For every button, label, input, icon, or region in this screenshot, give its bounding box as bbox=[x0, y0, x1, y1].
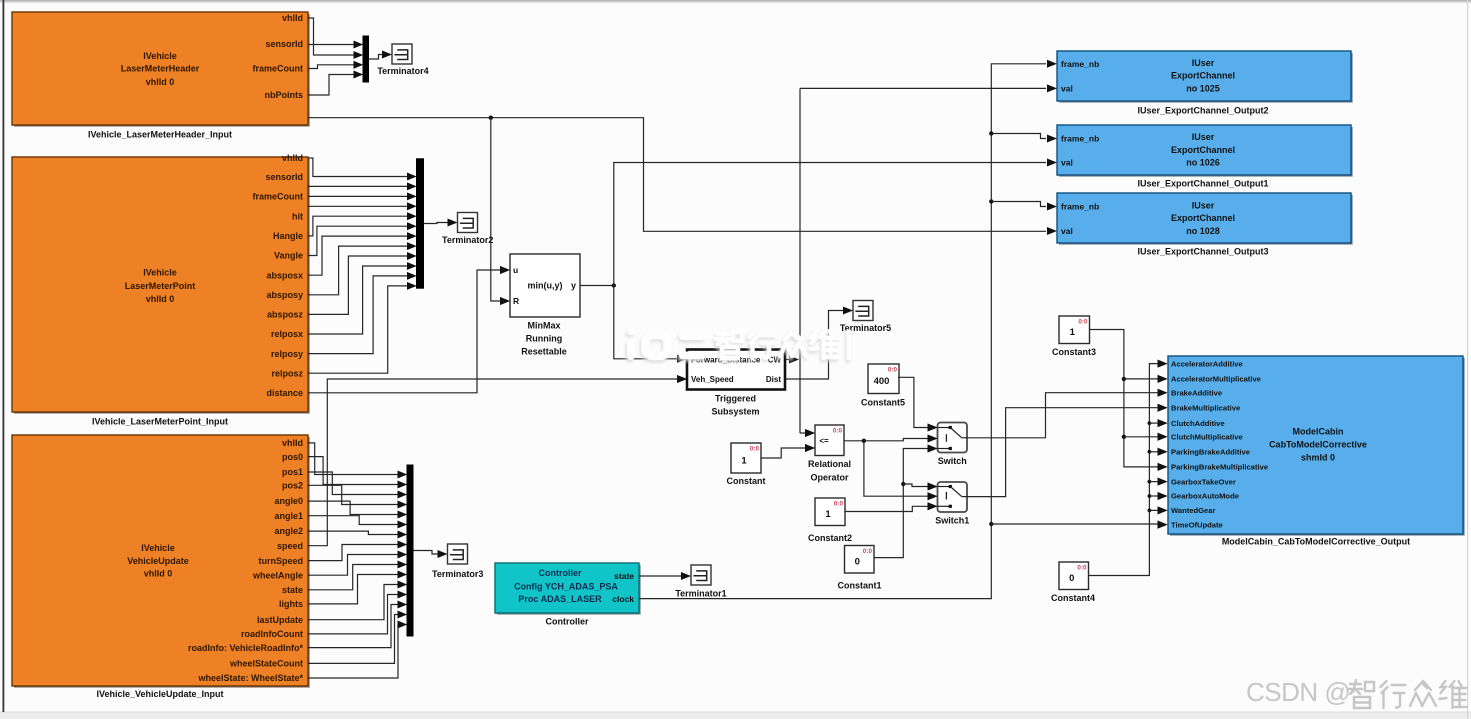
svg-text:0: 0 bbox=[1069, 573, 1074, 584]
svg-text:wheelState: WheelState*: wheelState: WheelState* bbox=[197, 673, 303, 683]
wire Switch1 out to BrakeMultiplicative bbox=[967, 404, 1168, 497]
svg-text:speed: speed bbox=[277, 541, 303, 551]
wire Mux2 to Terminator2 bbox=[424, 219, 458, 227]
constant block Constant1 (0) bbox=[837, 546, 881, 591]
svg-text:no 1026: no 1026 bbox=[1186, 158, 1220, 168]
canvas edge line bbox=[3, 0, 5, 712]
svg-text:sensorId: sensorId bbox=[265, 172, 303, 182]
right window edge line bbox=[1467, 0, 1468, 719]
subsystem block IVehicle_LaserMeterPoint_Input bbox=[12, 153, 309, 426]
svg-text:Hangle: Hangle bbox=[273, 231, 303, 241]
wire roadInfo: VehicleRoadInfo* to Mux3 in14 bbox=[308, 601, 407, 648]
svg-text:ExportChannel: ExportChannel bbox=[1171, 71, 1235, 81]
svg-text:Switch: Switch bbox=[938, 456, 967, 466]
svg-text:0: 0 bbox=[855, 557, 860, 568]
svg-text:state: state bbox=[282, 585, 303, 595]
svg-text:TimeOfUpdate: TimeOfUpdate bbox=[1171, 521, 1223, 530]
svg-text:nbPoints: nbPoints bbox=[265, 90, 304, 100]
wire lights to Mux3 in11 bbox=[308, 571, 407, 604]
svg-text:IUser: IUser bbox=[1192, 132, 1215, 142]
svg-text:wheelAngle: wheelAngle bbox=[252, 570, 303, 580]
svg-text:Constant5: Constant5 bbox=[861, 398, 905, 408]
svg-text:Terminator1: Terminator1 bbox=[675, 589, 726, 599]
wire pos0 to Mux3 in2 bbox=[308, 457, 407, 489]
wire turnSpeed to Mux3 in8 bbox=[308, 541, 407, 561]
svg-text:<=: <= bbox=[819, 436, 829, 445]
wire wheelStateCount to Mux3 in15 bbox=[308, 611, 407, 664]
constant block Constant5 (400) bbox=[861, 364, 905, 408]
svg-text:IVehicle_VehicleUpdate_Input: IVehicle_VehicleUpdate_Input bbox=[96, 689, 223, 699]
svg-text:clock: clock bbox=[612, 594, 634, 604]
svg-text:Dist: Dist bbox=[766, 375, 781, 384]
block MinMax Running Resettable bbox=[500, 254, 580, 357]
svg-text:pos0: pos0 bbox=[282, 452, 303, 462]
wire wheelAngle to Mux3 in9 bbox=[308, 551, 407, 576]
svg-text:no 1028: no 1028 bbox=[1186, 226, 1220, 236]
wire absposz to Mux2 in9 bbox=[308, 252, 417, 314]
block Terminator4 bbox=[377, 44, 428, 76]
subsystem block IVehicle_LaserMeterHeader_Input bbox=[12, 12, 309, 140]
output block ModelCabin_CabToModelCorrective_Output bbox=[1158, 356, 1465, 547]
svg-text:pos2: pos2 bbox=[282, 480, 303, 490]
svg-text:400: 400 bbox=[874, 376, 890, 387]
block Switch1 bbox=[928, 482, 970, 525]
svg-text:LaserMeterHeader: LaserMeterHeader bbox=[121, 64, 200, 74]
svg-text:frameCount: frameCount bbox=[252, 64, 303, 74]
svg-text:CSDN @: CSDN @ bbox=[1246, 677, 1350, 707]
wire Constant2 to Switch1 in3 bbox=[845, 502, 938, 511]
block Triggered Subsystem bbox=[677, 350, 785, 417]
svg-text:CabToModelCorrective: CabToModelCorrective bbox=[1269, 440, 1367, 450]
svg-text:shmId 0: shmId 0 bbox=[1301, 452, 1335, 462]
wire speed to Triggered Subsystem Veh_Speed bbox=[308, 375, 687, 546]
svg-text:state: state bbox=[614, 571, 634, 581]
wire angle0 to Mux3 in5 bbox=[308, 501, 407, 518]
bottom window band bbox=[0, 712, 1471, 719]
svg-text:min(u,y): min(u,y) bbox=[528, 281, 563, 291]
block Relational Operator bbox=[805, 425, 851, 483]
svg-text:0:0: 0:0 bbox=[750, 446, 760, 453]
wire absposx to Mux2 in7 bbox=[308, 232, 417, 275]
output block IUser_ExportChannel_Output3 bbox=[1057, 193, 1352, 257]
wire frameCount to Mux1 in3 bbox=[308, 61, 363, 69]
svg-text:turnSpeed: turnSpeed bbox=[258, 556, 303, 566]
svg-text:vhlId 0: vhlId 0 bbox=[146, 294, 175, 304]
constant block Constant4 (0) bbox=[1051, 562, 1095, 603]
svg-text:frame_nb: frame_nb bbox=[1061, 59, 1099, 69]
svg-text:roadInfoCount: roadInfoCount bbox=[241, 629, 303, 639]
svg-text:1: 1 bbox=[825, 509, 831, 520]
svg-text:lights: lights bbox=[279, 599, 303, 609]
output block IUser_ExportChannel_Output2 bbox=[1057, 51, 1352, 116]
svg-text:absposz: absposz bbox=[267, 310, 304, 320]
wire Mux1 to Terminator4 bbox=[369, 51, 393, 60]
wire hit to Mux2 in4 bbox=[308, 202, 417, 210]
svg-text:ModelCabin_CabToModelCorrectiv: ModelCabin_CabToModelCorrective_Output bbox=[1222, 537, 1410, 547]
svg-text:angle2: angle2 bbox=[274, 526, 303, 536]
subsystem block IVehicle_VehicleUpdate_Input bbox=[12, 435, 309, 699]
svg-text:no 1025: no 1025 bbox=[1186, 84, 1220, 94]
wire distance to MinMax u bbox=[308, 266, 510, 393]
svg-text:Terminator2: Terminator2 bbox=[442, 235, 493, 245]
wire pos2 to Mux3 in4 bbox=[308, 485, 407, 508]
svg-text:0:0: 0:0 bbox=[1077, 565, 1087, 572]
svg-text:relposx: relposx bbox=[271, 329, 303, 339]
svg-text:distance: distance bbox=[266, 388, 303, 398]
wire frame port to IUser val(1028) and MinMax R bbox=[308, 116, 1057, 306]
svg-text:absposx: absposx bbox=[266, 270, 303, 280]
svg-text:hit: hit bbox=[292, 212, 303, 222]
wire Constant1 to Switch in3 and Switch1 in1 bbox=[874, 445, 938, 558]
svg-text:0:0: 0:0 bbox=[833, 428, 843, 435]
block Terminator3 bbox=[432, 544, 483, 579]
block Switch bbox=[928, 423, 968, 466]
watermark center logo bbox=[626, 328, 852, 363]
svg-text:lastUpdate: lastUpdate bbox=[257, 615, 303, 625]
svg-text:GearboxTakeOver: GearboxTakeOver bbox=[1171, 477, 1236, 486]
svg-text:LaserMeterPoint: LaserMeterPoint bbox=[125, 281, 196, 291]
svg-text:ExportChannel: ExportChannel bbox=[1171, 145, 1235, 155]
svg-text:IUser: IUser bbox=[1192, 201, 1215, 211]
svg-text:Controller: Controller bbox=[538, 568, 581, 578]
wire absposy to Mux2 in8 bbox=[308, 242, 417, 295]
svg-text:IUser: IUser bbox=[1192, 58, 1215, 68]
svg-text:Config YCH_ADAS_PSA: Config YCH_ADAS_PSA bbox=[514, 581, 618, 591]
wire sensorId to Mux1 in1 bbox=[308, 41, 363, 49]
wire Constant5 to Switch in1 bbox=[898, 377, 938, 431]
svg-text:Constant: Constant bbox=[727, 476, 766, 486]
wire pos1 to Mux3 in3 bbox=[308, 472, 407, 498]
svg-text:Resettable: Resettable bbox=[521, 347, 567, 357]
wire Constant4 to additive ports bbox=[1089, 360, 1168, 576]
svg-text:IVehicle: IVehicle bbox=[143, 51, 177, 61]
wire Hangle to Mux2 in5 bbox=[308, 212, 417, 236]
svg-text:IVehicle_LaserMeterPoint_Input: IVehicle_LaserMeterPoint_Input bbox=[92, 417, 228, 427]
svg-text:Veh_Speed: Veh_Speed bbox=[691, 375, 734, 384]
wire MinMax y to IUser val(1026) and Subsystem in1 bbox=[580, 159, 1057, 363]
svg-text:angle1: angle1 bbox=[274, 511, 303, 521]
svg-text:vhlId: vhlId bbox=[282, 438, 303, 448]
wire Switch out to BrakeAdditive bbox=[967, 389, 1168, 438]
block Terminator2 bbox=[442, 213, 493, 246]
wire relposy to Mux2 in11 bbox=[308, 272, 417, 354]
block Terminator5 bbox=[840, 301, 891, 334]
svg-text:absposy: absposy bbox=[266, 290, 303, 300]
wire Constant to Relational Operator in2 bbox=[761, 444, 815, 458]
wire Vangle to Mux2 in6 bbox=[308, 222, 417, 255]
svg-text:VehicleUpdate: VehicleUpdate bbox=[127, 556, 189, 566]
wire vhlId to Mux2 in1 bbox=[308, 158, 417, 180]
svg-text:MinMax: MinMax bbox=[527, 321, 560, 331]
svg-text:relposz: relposz bbox=[271, 368, 303, 378]
wire sensorId to Mux2 in2 bbox=[308, 183, 417, 191]
svg-text:y: y bbox=[571, 281, 576, 291]
svg-text:Switch1: Switch1 bbox=[935, 515, 969, 525]
svg-text:Running: Running bbox=[526, 334, 563, 344]
svg-text:frame_nb: frame_nb bbox=[1061, 134, 1099, 144]
svg-text:angle0: angle0 bbox=[274, 496, 303, 506]
svg-text:1: 1 bbox=[1070, 327, 1076, 338]
svg-text:val: val bbox=[1061, 83, 1073, 93]
svg-text:IUser_ExportChannel_Output2: IUser_ExportChannel_Output2 bbox=[1137, 106, 1268, 116]
wire Controller clock to frame_nb ports and TimeOfUpdate bbox=[639, 60, 1168, 599]
top window edge band bbox=[0, 0, 1471, 3]
wire node to IUser val(1025) and Relational Operator in1 bbox=[800, 84, 1057, 437]
svg-text:0:0: 0:0 bbox=[1078, 319, 1088, 326]
wire angle1 to Mux3 in6 bbox=[308, 516, 407, 529]
output block IUser_ExportChannel_Output1 bbox=[1057, 125, 1352, 189]
svg-text:BrakeAdditive: BrakeAdditive bbox=[1171, 388, 1222, 397]
svg-text:0:0: 0:0 bbox=[834, 501, 844, 508]
wire Constant3 to multiplicative ports bbox=[1090, 330, 1168, 471]
svg-text:Terminator4: Terminator4 bbox=[377, 66, 428, 76]
wire Controller state to Terminator1 bbox=[639, 572, 691, 580]
svg-text:pos1: pos1 bbox=[282, 467, 303, 477]
svg-text:Constant2: Constant2 bbox=[808, 533, 852, 543]
svg-text:AcceleratorMultiplicative: AcceleratorMultiplicative bbox=[1171, 375, 1261, 384]
wire Subsystem Dist to Terminator5 bbox=[785, 307, 853, 380]
svg-text:Constant3: Constant3 bbox=[1052, 347, 1096, 357]
svg-text:IVehicle_LaserMeterHeader_Inpu: IVehicle_LaserMeterHeader_Input bbox=[88, 130, 232, 140]
svg-text:roadInfo: VehicleRoadInfo*: roadInfo: VehicleRoadInfo* bbox=[188, 643, 304, 653]
svg-text:ModelCabin: ModelCabin bbox=[1293, 426, 1344, 436]
svg-text:IUser_ExportChannel_Output3: IUser_ExportChannel_Output3 bbox=[1137, 247, 1268, 257]
mux Mux2 bbox=[407, 159, 424, 290]
wire state to Mux3 in10 bbox=[308, 561, 407, 590]
svg-text:ParkingBrakeMultiplicative: ParkingBrakeMultiplicative bbox=[1171, 463, 1268, 472]
wire wheelState: WheelState* to Mux3 in16 bbox=[308, 621, 407, 678]
svg-text:Relational: Relational bbox=[808, 459, 851, 469]
wire Mux3 to Terminator3 bbox=[414, 550, 448, 558]
svg-text:Vangle: Vangle bbox=[274, 251, 303, 261]
wire relposz to Mux2 in12 bbox=[308, 282, 417, 373]
wire nbPoints to Mux1 in4 bbox=[308, 71, 363, 95]
svg-text:Subsystem: Subsystem bbox=[711, 406, 759, 416]
svg-text:vhlId 0: vhlId 0 bbox=[146, 77, 175, 87]
svg-text:0:0: 0:0 bbox=[863, 548, 873, 555]
svg-text:GearboxAutoMode: GearboxAutoMode bbox=[1171, 492, 1239, 501]
svg-text:Triggered: Triggered bbox=[715, 393, 756, 403]
svg-text:val: val bbox=[1061, 226, 1073, 236]
svg-text:Operator: Operator bbox=[810, 473, 849, 483]
svg-text:R: R bbox=[513, 296, 519, 306]
svg-text:vhlId: vhlId bbox=[282, 153, 303, 163]
svg-text:ParkingBrakeAdditive: ParkingBrakeAdditive bbox=[1171, 448, 1250, 457]
svg-text:WantedGear: WantedGear bbox=[1171, 506, 1215, 515]
constant block Constant3 (1) bbox=[1052, 316, 1096, 357]
wire relposx to Mux2 in10 bbox=[308, 262, 417, 334]
svg-text:IUser_ExportChannel_Output1: IUser_ExportChannel_Output1 bbox=[1137, 179, 1268, 189]
controller block Controller bbox=[495, 563, 640, 627]
block Terminator1 bbox=[675, 565, 726, 599]
svg-text:sensorId: sensorId bbox=[265, 39, 303, 49]
svg-text:ExportChannel: ExportChannel bbox=[1171, 213, 1235, 223]
svg-text:Controller: Controller bbox=[545, 617, 588, 627]
svg-text:vhlId 0: vhlId 0 bbox=[144, 568, 173, 578]
svg-text:Proc ADAS_LASER: Proc ADAS_LASER bbox=[518, 594, 602, 604]
constant block Constant2 (1) bbox=[808, 498, 852, 543]
svg-text:relposy: relposy bbox=[271, 349, 303, 359]
watermark CSDN bottom right bbox=[1246, 677, 1467, 708]
wire frameCount to Mux2 in3 bbox=[308, 193, 417, 201]
svg-text:AcceleratorAdditive: AcceleratorAdditive bbox=[1171, 359, 1243, 368]
svg-text:BrakeMultiplicative: BrakeMultiplicative bbox=[1171, 403, 1240, 412]
svg-text:wheelStateCount: wheelStateCount bbox=[229, 659, 303, 669]
svg-text:u: u bbox=[513, 265, 518, 275]
svg-text:ClutchAdditive: ClutchAdditive bbox=[1171, 419, 1225, 428]
wire Subsystem CW out to node bbox=[785, 356, 799, 364]
svg-text:frameCount: frameCount bbox=[252, 192, 303, 202]
wire Relational Operator out to Switch and Switch1 control bbox=[844, 435, 938, 501]
svg-text:Constant4: Constant4 bbox=[1051, 593, 1095, 603]
wire vhlId to Mux3 in1 bbox=[308, 443, 407, 479]
constant block Constant (1) bbox=[727, 443, 766, 486]
wire angle2 to Mux3 in7 bbox=[308, 531, 407, 539]
svg-text:vhlId: vhlId bbox=[282, 13, 303, 23]
svg-text:0:0: 0:0 bbox=[888, 367, 898, 374]
wire roadInfoCount to Mux3 in13 bbox=[308, 591, 407, 634]
svg-text:Terminator3: Terminator3 bbox=[432, 569, 483, 579]
svg-text:val: val bbox=[1061, 158, 1073, 168]
svg-text:frame_nb: frame_nb bbox=[1061, 202, 1099, 212]
svg-text:IVehicle: IVehicle bbox=[141, 543, 175, 553]
svg-text:ClutchMultiplicative: ClutchMultiplicative bbox=[1171, 433, 1243, 442]
wire vhlId to Mux1 in2 bbox=[308, 18, 363, 59]
svg-text:Constant1: Constant1 bbox=[837, 581, 881, 591]
svg-text:1: 1 bbox=[741, 455, 747, 466]
wire lastUpdate to Mux3 in12 bbox=[308, 581, 407, 620]
mux Mux1 bbox=[354, 36, 369, 82]
svg-text:IVehicle: IVehicle bbox=[143, 267, 177, 277]
mux Mux3 bbox=[398, 465, 414, 636]
